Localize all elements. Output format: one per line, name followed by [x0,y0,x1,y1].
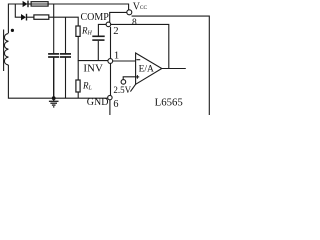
wire row2 after resistor to divider corner [49,17,78,25]
Vcc terminal circle (pin 8) [127,10,132,15]
svg-text:INV: INV [83,63,103,75]
wire row1 top rail from winding to Vcc elbow [8,4,128,33]
svg-text:VCC: VCC [133,2,148,13]
Vcc rail wire to right edge and down [132,16,210,115]
svg-text:6: 6 [113,99,118,110]
GND pin circle (pin 6) [108,95,112,99]
svg-text:1: 1 [114,50,119,62]
svg-text:RL: RL [82,81,93,92]
svg-text:RH: RH [81,26,93,37]
diode D2 [21,14,34,21]
wire COMP pin up to Vcc terminal [110,12,127,22]
resistor RL (divider bottom, box) [76,61,80,99]
ground junction dot [52,96,56,100]
IC box L6565 [111,24,169,95]
transformer core line [3,30,5,72]
resistor (row1, box) [31,2,48,6]
transformer winding coil [4,29,14,65]
svg-text:2.5V: 2.5V [113,85,131,95]
COMP pin circle (pin 2) [106,22,111,27]
resistor (row2, box) [34,15,49,19]
op-amp minus sign [136,59,140,61]
svg-text:8: 8 [132,18,137,28]
GND pin lead below [109,100,111,115]
op-amp plus sign [136,75,140,79]
svg-text:E/A: E/A [139,65,154,75]
ground symbol [49,98,59,107]
capacitor C2 (divider filter) [60,17,71,98]
wire 2.5V reference to plus input [123,77,135,80]
wire INV pin into op-amp minus input [113,60,136,62]
svg-text:L6565: L6565 [155,96,183,108]
wire row1 after resistor [48,3,128,5]
resistor RH (divider top, box) [76,26,80,36]
wire branch to second diode row [15,4,21,17]
wire winding bottom to ground rail [8,65,107,98]
svg-text:2: 2 [113,25,118,37]
capacitor C1 (Vcc filter) [48,4,59,98]
svg-text:GND: GND [87,97,109,108]
op-amp output wire [162,68,186,70]
op-amp E/A triangle [130,53,161,92]
capacitor C3 (COMP-INV feedback) [92,24,106,60]
diode D1 [23,1,31,8]
2.5V terminal circle [121,80,126,85]
INV pin circle (pin 1) [108,59,113,64]
svg-text:COMP: COMP [81,12,110,23]
wire RH bottom to INV node [78,37,108,61]
